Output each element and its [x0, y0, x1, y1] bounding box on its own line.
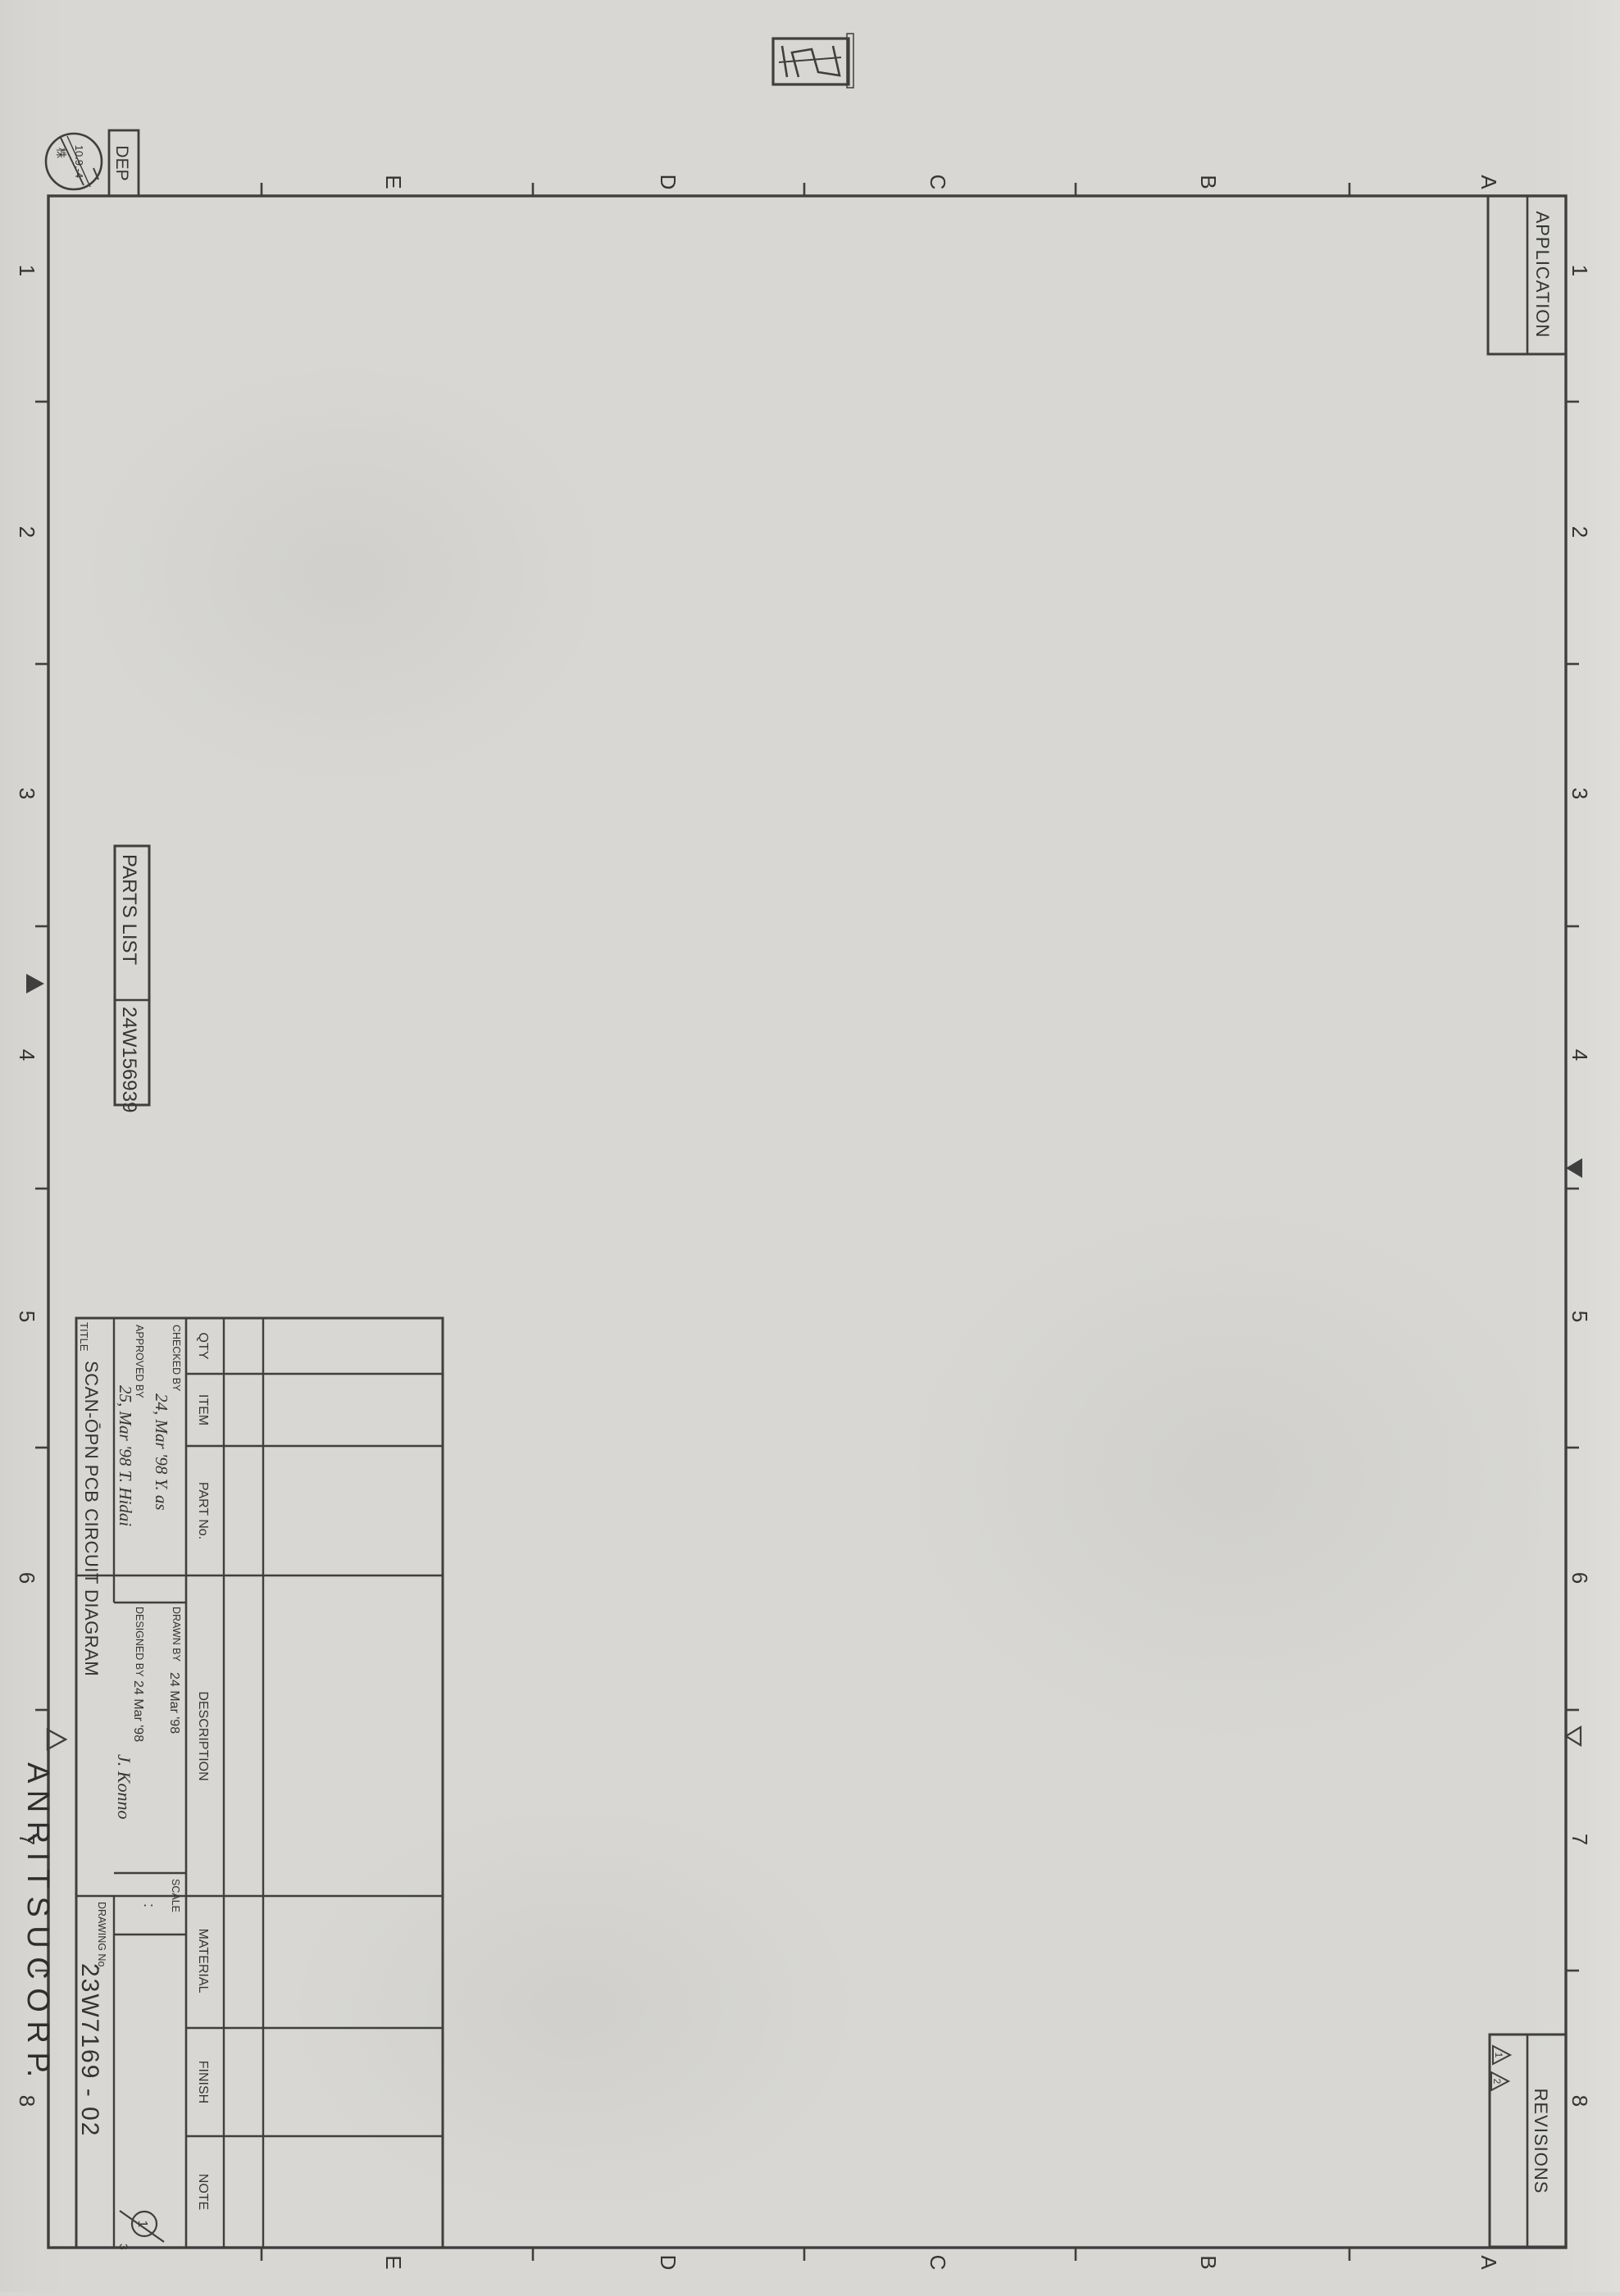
revision marker triangle bottom	[26, 974, 44, 993]
svg-text:DESIGNED BY: DESIGNED BY	[134, 1607, 145, 1677]
svg-text:SCAN-ŌPN PCB CIRCUIT DIAGRAM: SCAN-ŌPN PCB CIRCUIT DIAGRAM	[81, 1361, 102, 1676]
svg-text:C: C	[926, 175, 950, 190]
svg-text:A: A	[1477, 2255, 1501, 2270]
title block grid	[76, 1318, 443, 2248]
svg-text:TITLE: TITLE	[78, 1322, 90, 1352]
svg-text:E: E	[381, 175, 406, 189]
svg-text:DRAWN BY: DRAWN BY	[171, 1607, 182, 1662]
svg-text:D: D	[656, 175, 680, 190]
svg-text::: :	[141, 1903, 157, 1907]
svg-text:3: 3	[15, 788, 39, 799]
DEP box	[109, 130, 139, 196]
svg-text:PARTS LIST: PARTS LIST	[118, 854, 140, 965]
svg-text:3: 3	[1568, 788, 1592, 799]
svg-text:24W156939: 24W156939	[118, 1007, 140, 1112]
svg-text:23W7169 - 02: 23W7169 - 02	[76, 1963, 103, 2137]
APPLICATION box	[1488, 196, 1566, 354]
svg-text:B: B	[1196, 2255, 1221, 2269]
svg-text:B: B	[1196, 175, 1221, 189]
svg-text:6: 6	[1568, 1572, 1592, 1584]
date stamp	[46, 134, 102, 189]
svg-text:2: 2	[15, 526, 39, 538]
svg-text:24 Mar '98: 24 Mar '98	[131, 1680, 145, 1742]
grid row ticks	[262, 183, 1349, 2261]
svg-text:APPLICATION: APPLICATION	[1532, 211, 1553, 339]
svg-text:1: 1	[15, 265, 39, 276]
revision marker triangle outline top	[1566, 1727, 1581, 1745]
svg-text:A N R I T S U C O R P.: A N R I T S U C O R P.	[20, 1762, 55, 2077]
svg-text:J. Konno: J. Konno	[114, 1754, 134, 1819]
svg-text:3: 3	[117, 2244, 130, 2250]
svg-text:8: 8	[1568, 2095, 1592, 2107]
svg-text:DEP: DEP	[112, 145, 131, 180]
PARTS LIST box	[115, 846, 149, 1112]
svg-text:6: 6	[15, 1572, 39, 1584]
revision triangles 1 2	[1491, 2046, 1510, 2090]
svg-text:PART No.: PART No.	[196, 1482, 210, 1539]
svg-text:QTY: QTY	[196, 1333, 210, 1360]
ANRITSU CORP	[20, 1730, 66, 2077]
svg-text:2: 2	[1491, 2079, 1503, 2085]
svg-text:5: 5	[1568, 1311, 1592, 1322]
title text	[78, 1322, 102, 1676]
svg-text:2: 2	[1568, 526, 1592, 538]
svg-text:24 Mar '98: 24 Mar '98	[167, 1672, 181, 1734]
grid row letters right	[381, 2255, 1501, 2271]
svg-text:MATERIAL: MATERIAL	[196, 1929, 210, 1994]
svg-text:ITEM: ITEM	[196, 1394, 210, 1425]
svg-text:C: C	[926, 2255, 950, 2271]
svg-text:A: A	[1477, 175, 1501, 189]
grid column numbers bottom	[15, 265, 39, 2107]
svg-text:4: 4	[15, 1049, 39, 1061]
grid row letters left	[381, 175, 1501, 190]
svg-text:24, Mar '98 Y. as: 24, Mar '98 Y. as	[152, 1394, 171, 1511]
svg-text:DRAWING No.: DRAWING No.	[96, 1902, 107, 1970]
svg-text:SCALE: SCALE	[170, 1879, 181, 1912]
grid column ticks	[35, 402, 1579, 1971]
svg-text:4: 4	[1568, 1049, 1592, 1061]
svg-text:7: 7	[1568, 1834, 1592, 1845]
svg-text:5: 5	[15, 1311, 39, 1322]
svg-text:1: 1	[1568, 265, 1592, 276]
revision marker triangle filled top	[1566, 1158, 1582, 1178]
svg-text:D: D	[656, 2255, 680, 2271]
svg-text:8: 8	[15, 2095, 39, 2107]
svg-text:10.9.-4: 10.9.-4	[73, 145, 85, 178]
inspection stamp	[773, 34, 853, 88]
svg-text:CHECKED BY: CHECKED BY	[171, 1325, 182, 1392]
title block signatures	[114, 1325, 182, 1819]
drawing number	[76, 1902, 107, 2137]
svg-text:FINISH: FINISH	[196, 2061, 210, 2103]
title block headers	[196, 1333, 210, 2211]
svg-text:1: 1	[1493, 2053, 1504, 2058]
svg-text:REVISIONS: REVISIONS	[1531, 2089, 1551, 2194]
grid column numbers top	[1568, 265, 1592, 2107]
svg-text:NOTE: NOTE	[196, 2174, 210, 2210]
sheet number mark	[117, 2211, 164, 2250]
svg-text:DESCRIPTION: DESCRIPTION	[196, 1691, 210, 1780]
scale cell	[141, 1879, 181, 1912]
svg-text:E: E	[381, 2255, 406, 2269]
svg-text:株: 株	[55, 148, 67, 158]
REVISIONS box	[1490, 2035, 1566, 2247]
svg-text:25, Mar '98 T. Hidai: 25, Mar '98 T. Hidai	[116, 1385, 135, 1526]
